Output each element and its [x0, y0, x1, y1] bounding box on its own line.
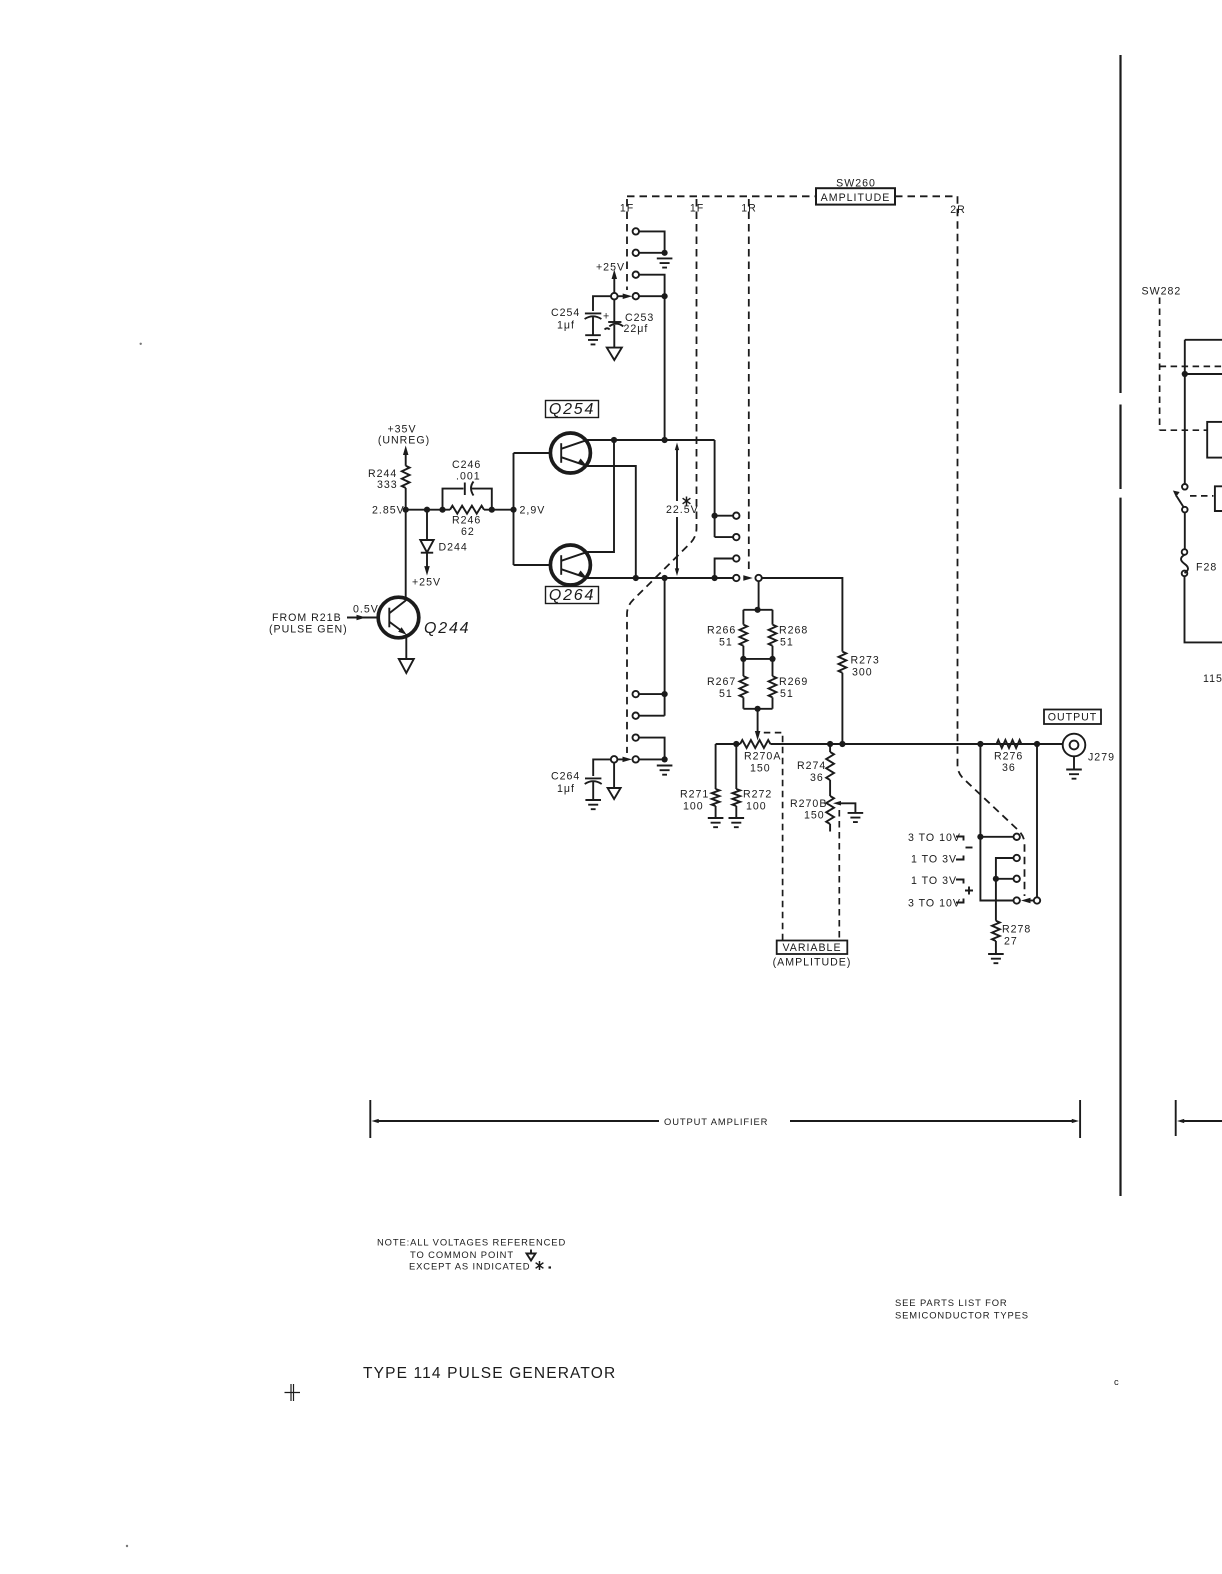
svg-text:R273: R273: [851, 655, 880, 667]
wire moving contact down to R266 network: [758, 581, 760, 610]
switch lower bank contact 1: [633, 691, 639, 697]
switch SW260 wafer 1R wiper arrow: [743, 575, 753, 581]
ground (chassis) below C264: [585, 800, 601, 809]
svg-text:100: 100: [683, 801, 704, 813]
common point triangle below node: [613, 763, 615, 788]
resistor R274 36: [829, 744, 831, 752]
svg-text:36: 36: [810, 772, 824, 784]
switch SW260 wafer 1F contact 1: [633, 228, 639, 234]
common point triangle below C253: [607, 348, 622, 360]
section divider rule: [1119, 55, 1121, 1196]
junction right section: [1182, 371, 1188, 377]
svg-text:Q254: Q254: [549, 401, 595, 418]
svg-text:J279: J279: [1088, 752, 1115, 764]
wire: dashed gang link 2R: [958, 196, 1025, 896]
svg-text:R266: R266: [707, 625, 736, 637]
svg-text:C246: C246: [452, 459, 481, 471]
capacitor C246 .001 (bypass loop): [443, 489, 492, 510]
label Q264: [546, 587, 599, 604]
wire collector rail to wafer 1R contacts: [714, 440, 716, 537]
junction R274 tap: [827, 741, 833, 747]
svg-text:3 TO 10V: 3 TO 10V: [908, 898, 961, 910]
junction contact2/contact1: [662, 250, 668, 256]
node +25V feed circle: [611, 293, 618, 300]
svg-text:F28: F28: [1196, 562, 1217, 574]
switch SW260 wafer 1F contact 2: [633, 250, 639, 256]
wire wiper from output line: [1036, 744, 1038, 897]
wire: SW260 gang dashed bus: [627, 195, 958, 197]
wire rail to lower bank: [664, 578, 666, 716]
switch SW260 wafer 2R contact 1: [1014, 834, 1020, 840]
wire contact3 to wiper row: [639, 275, 665, 297]
speck bottom left: [126, 1545, 128, 1547]
switch SW260 wafer 1R contact 3 + wire: [715, 559, 734, 579]
svg-text:333: 333: [377, 479, 398, 491]
svg-text:.001: .001: [456, 471, 481, 483]
svg-text:c: c: [1114, 1376, 1120, 1387]
wire moving contact to R273: [762, 578, 843, 652]
switch lower bank wiper arrow: [617, 758, 623, 760]
junction contact1: [662, 691, 668, 697]
svg-text:Q244: Q244: [424, 620, 470, 637]
junction collector rail / Q264 collector: [611, 437, 617, 443]
switch blade with arrow: [1177, 496, 1184, 507]
svg-text:3 TO 10V: 3 TO 10V: [908, 832, 961, 844]
wire: dashed gang link 1R: [748, 199, 750, 570]
wire node to C264: [593, 759, 611, 776]
box partial 2 (right edge): [1215, 486, 1222, 511]
wire base rail Q254/Q264: [514, 453, 551, 565]
svg-text:1μf: 1μf: [557, 783, 575, 795]
wire wiper to ground: [639, 758, 665, 760]
resistor R246 62: [450, 506, 484, 514]
wire network frame bottom: [743, 697, 772, 708]
svg-text:2,9V: 2,9V: [520, 505, 546, 517]
svg-text:VARIABLE: VARIABLE: [782, 942, 841, 954]
capacitor C264: [585, 777, 601, 779]
resistor R273 300: [839, 652, 847, 673]
svg-text:1 TO 3V: 1 TO 3V: [911, 854, 957, 866]
junction Q254 emitter: [633, 575, 639, 581]
junction contact stub: [712, 513, 718, 519]
dashed gang link VARIABLE to R270B: [838, 810, 840, 941]
diode D244: [426, 510, 428, 540]
registration mark: [285, 1384, 301, 1401]
node 2.85V junction: [403, 507, 409, 513]
wire lower output rail: [716, 743, 1063, 745]
svg-text:SEMICONDUCTOR TYPES: SEMICONDUCTOR TYPES: [895, 1310, 1029, 1321]
common point triangle Q244 emitter: [399, 659, 414, 673]
wire Q254 collector rail: [587, 439, 714, 441]
svg-text:(UNREG): (UNREG): [378, 435, 430, 447]
box partial (right edge): [1207, 422, 1222, 458]
svg-text:51: 51: [780, 637, 794, 649]
label Q254: [546, 401, 599, 418]
resistor R269 51: [769, 676, 777, 697]
wire network mid tie: [743, 658, 772, 660]
wire wiper row to collector rail: [639, 295, 665, 297]
wire right section top: [1185, 340, 1222, 484]
dashed gang link VARIABLE to R270A: [764, 733, 783, 941]
svg-text:62: 62: [461, 526, 475, 538]
svg-text:36: 36: [1002, 762, 1016, 774]
svg-text:SEE PARTS LIST FOR: SEE PARTS LIST FOR: [895, 1297, 1008, 1308]
capacitor C254: [585, 312, 601, 314]
svg-text:1μf: 1μf: [557, 320, 575, 332]
ground (chassis) below C254: [585, 335, 601, 344]
svg-text:1 TO 3V: 1 TO 3V: [911, 875, 957, 887]
junction collector rail / +25V feed: [662, 437, 668, 443]
wire network to R270A wiper arrow: [757, 709, 759, 733]
label OUTPUT box: [1044, 710, 1101, 725]
transistor Q264: [550, 545, 590, 585]
svg-text:0.5V: 0.5V: [353, 604, 379, 616]
speck top left: [140, 343, 142, 345]
svg-text:R270B: R270B: [790, 798, 827, 810]
control VARIABLE (AMPLITUDE) box: [777, 941, 848, 955]
svg-text:TO COMMON POINT: TO COMMON POINT: [410, 1249, 514, 1260]
annotation OUTPUT AMPLIFIER section bracket: [369, 1100, 371, 1138]
switch SW260 wafer 2R contact 3: [1014, 876, 1020, 882]
svg-text:EXCEPT AS INDICATED: EXCEPT AS INDICATED: [409, 1261, 530, 1272]
ground (chassis) at bank1 contacts: [657, 258, 673, 267]
svg-text:150: 150: [750, 763, 771, 775]
wire Q244 emitter to common: [405, 634, 407, 659]
dashed link to partial box: [1190, 495, 1214, 497]
potentiometer R270B 150: [826, 796, 834, 824]
fuse F282: [1184, 512, 1186, 549]
wire network mid rails: [743, 646, 772, 676]
switch SW260 wafer 1F contact 3: [633, 272, 639, 278]
switch SW260 wafer 1R moving contact: [755, 575, 761, 581]
switch SW260 wafer 1R contact 1: [733, 513, 739, 519]
svg-text:100: 100: [746, 801, 767, 813]
svg-text:R269: R269: [779, 676, 808, 688]
svg-text:+: +: [603, 311, 610, 323]
svg-text:C264: C264: [551, 771, 580, 783]
svg-text:R267: R267: [707, 676, 736, 688]
wire R244 to node: [405, 488, 407, 510]
svg-text:115V: 115V: [1203, 673, 1222, 685]
svg-text:+25V: +25V: [412, 577, 441, 589]
junction D244 tap: [424, 507, 430, 513]
switch lower bank contact 2: [633, 713, 639, 719]
svg-text:D244: D244: [439, 542, 468, 554]
resistor R278 27: [992, 921, 1000, 941]
resistor R244 333: [402, 466, 410, 488]
svg-text:51: 51: [780, 688, 794, 700]
switch SW260 wafer 2R moving contact: [1034, 897, 1040, 903]
switch contact lower: [1182, 507, 1188, 513]
svg-text:R276: R276: [994, 751, 1023, 763]
junction contact1 stub: [977, 834, 983, 840]
svg-text:R246: R246: [452, 515, 481, 527]
resistor R272 100: [735, 744, 737, 789]
wire branch to wafer 2R contacts: [980, 744, 1013, 901]
node C264 feed circle: [611, 756, 618, 763]
junction base rail / R246: [510, 507, 516, 513]
svg-text:27: 27: [1004, 936, 1018, 948]
switch lower bank contact 3 + wire: [633, 734, 639, 740]
svg-text:C254: C254: [551, 307, 580, 319]
svg-text:(AMPLITUDE): (AMPLITUDE): [773, 957, 852, 969]
switch SW260 wafer 2R contact 2 + wire to R278: [996, 858, 1014, 921]
junction mid left: [740, 656, 746, 662]
junction network bottom: [755, 706, 761, 712]
wire 2.85V node to R246: [406, 509, 450, 511]
wire: dashed gang link 1F second: [627, 199, 697, 753]
switch SW260 wafer 1R contact 2: [733, 534, 739, 540]
junction wiper feed: [1034, 741, 1040, 747]
svg-text:22μf: 22μf: [624, 323, 649, 335]
annotation 22.5V measurement arrow: [676, 449, 678, 570]
svg-text:R278: R278: [1002, 924, 1031, 936]
wire +25V supply arrow: [613, 276, 615, 293]
next section bracket: [1175, 1100, 1177, 1136]
svg-text:2.85V: 2.85V: [372, 505, 405, 517]
potentiometer R270A 150: [740, 740, 770, 748]
svg-text:150: 150: [804, 810, 825, 822]
transistor Q254: [550, 433, 590, 473]
transistor Q244: [378, 597, 419, 638]
wire fuse down and right: [1185, 576, 1222, 642]
capacitor C253 (electrolytic): [613, 300, 615, 323]
resistor R271 100: [715, 744, 717, 789]
wire R270B wiper to ground: [833, 801, 841, 806]
junction contact3 stub: [993, 876, 999, 882]
junction mid right: [769, 656, 775, 662]
switch SW260 wafer 1F moving contact: [633, 293, 639, 299]
wire contact2: [639, 252, 665, 254]
svg-text:300: 300: [852, 667, 873, 679]
svg-text:+25V: +25V: [596, 262, 625, 274]
wire Q244 base input: [347, 617, 378, 619]
connector J279 OUTPUT: [1063, 734, 1086, 757]
svg-text:R274: R274: [797, 760, 826, 772]
resistor R266 51: [740, 625, 748, 646]
svg-text:FROM R21B: FROM R21B: [272, 612, 342, 624]
svg-text:R272: R272: [743, 789, 772, 801]
switch lower bank moving contact: [633, 756, 639, 762]
dashed gang link SW282: [1160, 298, 1222, 431]
junction R272 tap: [733, 741, 739, 747]
wire contact1 to ground bus: [639, 231, 665, 252]
junction network top: [755, 607, 761, 613]
svg-text:R268: R268: [779, 625, 808, 637]
svg-text:51: 51: [719, 688, 733, 700]
junction R246 right: [489, 507, 495, 513]
switch SW260 wafer 1F wiper arrow: [618, 295, 624, 297]
svg-text:Q264: Q264: [549, 587, 595, 604]
junction to lower bank: [662, 575, 668, 581]
resistor R267 51: [740, 676, 748, 697]
svg-text:(PULSE GEN): (PULSE GEN): [269, 624, 348, 636]
wire: dashed gang link 1F to bank1 wiper: [626, 199, 628, 290]
resistor R276 36: [997, 740, 1022, 748]
bracket plus group: [956, 880, 964, 903]
svg-text:R270A: R270A: [744, 751, 781, 763]
svg-text:R271: R271: [680, 789, 709, 801]
svg-text:22.5V: 22.5V: [666, 504, 699, 516]
svg-text:NOTE:ALL VOLTAGES REFERENCED: NOTE:ALL VOLTAGES REFERENCED: [377, 1237, 566, 1248]
wire Q244 collector up to 2.85V node: [405, 510, 407, 601]
junction R273 bottom: [839, 741, 845, 747]
wire +25V node to C254: [593, 296, 611, 311]
switch SW260 AMPLITUDE box: [816, 188, 895, 204]
svg-text:OUTPUT: OUTPUT: [1048, 712, 1098, 724]
bracket minus group: [956, 837, 964, 860]
switch contact upper: [1182, 484, 1188, 490]
wire +35V arrow: [403, 446, 409, 456]
wire Q254 emitter to output rail: [587, 466, 635, 578]
junction wafer1R to output rail: [712, 575, 718, 581]
svg-text:SW282: SW282: [1142, 286, 1182, 298]
wire Q264 collector to rail: [587, 440, 614, 552]
switch SW260 wafer 2R contact 4: [1014, 897, 1020, 903]
svg-text:TYPE 114 PULSE GENERATOR: TYPE 114 PULSE GENERATOR: [363, 1365, 616, 1382]
wire network frame top: [743, 609, 772, 611]
switch SW260 wafer 1R fixed wiper contact: [733, 575, 739, 581]
junction R246 left: [439, 507, 445, 513]
svg-text:AMPLITUDE: AMPLITUDE: [821, 192, 891, 204]
svg-text:OUTPUT AMPLIFIER: OUTPUT AMPLIFIER: [664, 1116, 768, 1127]
wire output rail (Q264 emitter): [587, 577, 733, 579]
junction output branch: [977, 741, 983, 747]
svg-text:51: 51: [719, 637, 733, 649]
resistor R268 51: [769, 625, 777, 646]
